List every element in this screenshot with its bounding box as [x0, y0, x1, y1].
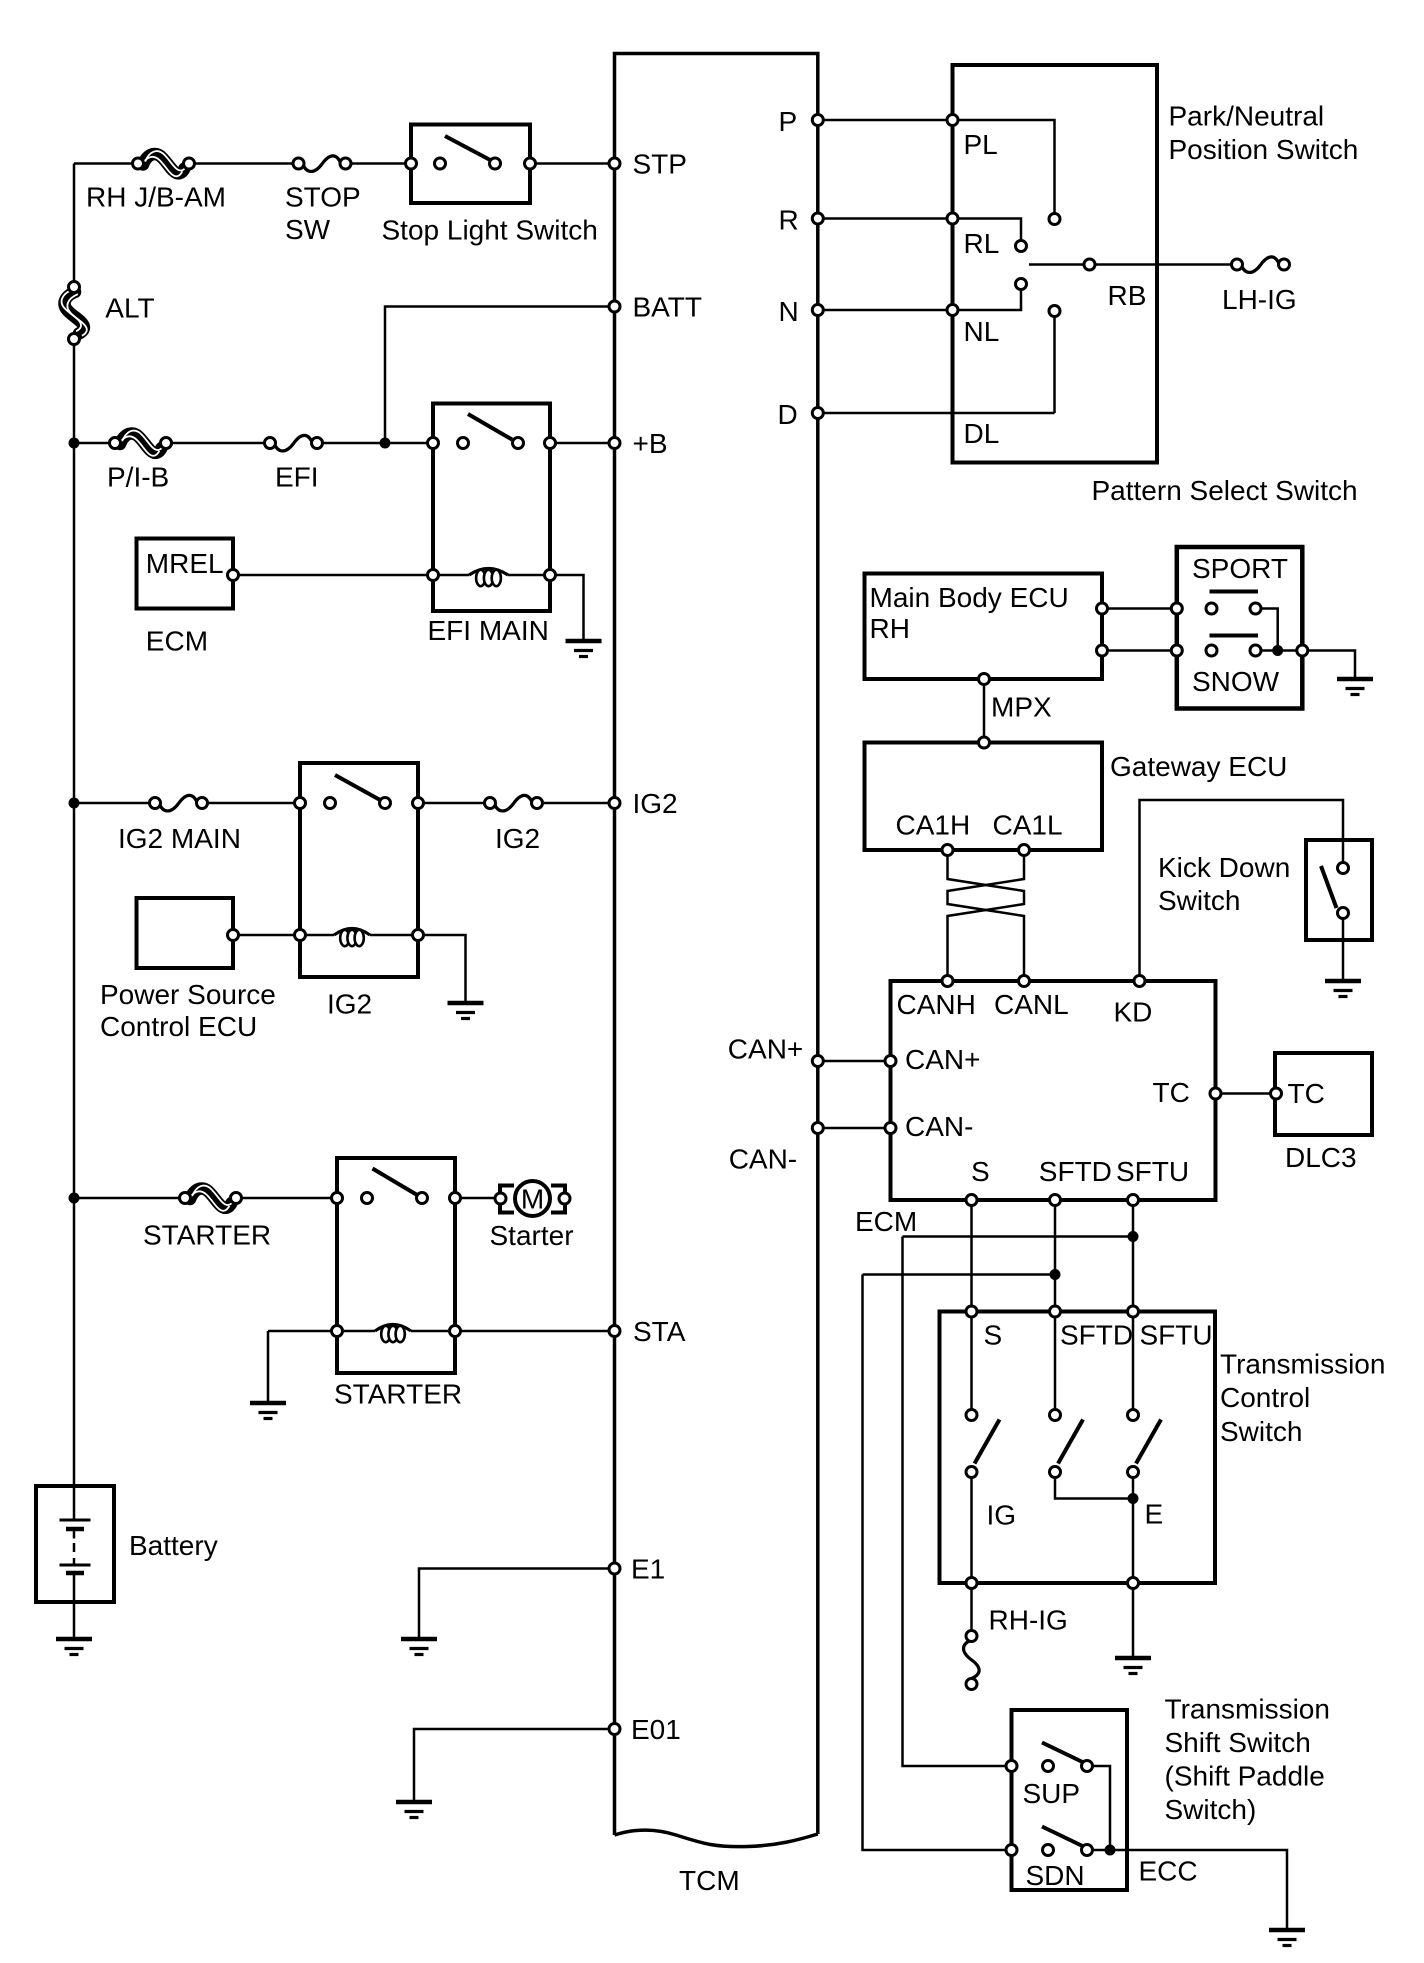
svg-text:Switch): Switch) [1165, 1794, 1257, 1825]
svg-text:STARTER: STARTER [334, 1379, 462, 1410]
svg-text:RH-IG: RH-IG [989, 1605, 1068, 1636]
svg-text:Transmission: Transmission [1220, 1349, 1385, 1380]
svg-text:CAN+: CAN+ [728, 1034, 803, 1065]
svg-text:Control ECU: Control ECU [100, 1011, 257, 1042]
svg-text:SNOW: SNOW [1192, 666, 1280, 697]
svg-text:CAN-: CAN- [729, 1144, 797, 1175]
svg-text:+B: +B [633, 428, 668, 459]
svg-text:E1: E1 [631, 1554, 665, 1585]
svg-text:SUP: SUP [1023, 1778, 1081, 1809]
svg-text:EFI MAIN: EFI MAIN [428, 615, 549, 646]
svg-text:ALT: ALT [105, 293, 154, 324]
svg-text:S: S [984, 1320, 1003, 1351]
svg-text:Stop Light Switch: Stop Light Switch [382, 215, 598, 246]
svg-text:CA1H: CA1H [896, 810, 971, 841]
svg-text:Starter: Starter [490, 1220, 574, 1251]
svg-text:Park/Neutral: Park/Neutral [1169, 101, 1325, 132]
svg-text:Kick Down: Kick Down [1158, 852, 1290, 883]
svg-text:Switch: Switch [1158, 885, 1240, 916]
svg-text:D: D [778, 399, 798, 430]
svg-text:S: S [971, 1156, 990, 1187]
svg-text:SDN: SDN [1026, 1860, 1085, 1891]
svg-text:Power Source: Power Source [100, 979, 276, 1010]
svg-text:RB: RB [1108, 280, 1147, 311]
svg-text:KD: KD [1114, 997, 1153, 1028]
svg-text:CA1L: CA1L [993, 810, 1063, 841]
svg-text:EFI: EFI [275, 462, 319, 493]
svg-text:CANH: CANH [897, 989, 976, 1020]
svg-text:R: R [779, 205, 799, 236]
svg-text:Switch: Switch [1220, 1416, 1302, 1447]
svg-text:IG2: IG2 [633, 788, 678, 819]
svg-text:SFTU: SFTU [1116, 1156, 1189, 1187]
svg-text:SFTD: SFTD [1039, 1156, 1112, 1187]
svg-text:STA: STA [633, 1316, 686, 1347]
svg-text:Control: Control [1220, 1382, 1310, 1413]
svg-text:LH-IG: LH-IG [1222, 284, 1297, 315]
svg-text:Gateway ECU: Gateway ECU [1110, 751, 1287, 782]
svg-text:SPORT: SPORT [1192, 553, 1288, 584]
svg-text:IG2: IG2 [495, 823, 540, 854]
svg-text:E01: E01 [631, 1714, 681, 1745]
svg-text:IG2: IG2 [327, 989, 372, 1020]
svg-text:DL: DL [964, 418, 1000, 449]
svg-text:STARTER: STARTER [143, 1220, 271, 1251]
svg-text:STOP: STOP [285, 182, 361, 213]
svg-text:MREL: MREL [146, 548, 224, 579]
svg-text:IG2 MAIN: IG2 MAIN [118, 823, 241, 854]
svg-text:CAN-: CAN- [905, 1111, 973, 1142]
svg-text:CAN+: CAN+ [905, 1044, 980, 1075]
svg-text:Transmission: Transmission [1165, 1694, 1330, 1725]
svg-text:DLC3: DLC3 [1285, 1142, 1357, 1173]
svg-text:TC: TC [1153, 1077, 1190, 1108]
svg-text:STP: STP [633, 149, 687, 180]
svg-text:N: N [779, 296, 799, 327]
svg-text:TC: TC [1288, 1078, 1325, 1109]
svg-text:(Shift Paddle: (Shift Paddle [1165, 1761, 1325, 1792]
svg-text:SW: SW [285, 214, 331, 245]
svg-text:P/I-B: P/I-B [107, 462, 169, 493]
svg-text:PL: PL [964, 129, 998, 160]
svg-text:SFTD: SFTD [1060, 1320, 1133, 1351]
svg-text:RL: RL [964, 228, 1000, 259]
svg-text:RH: RH [870, 613, 910, 644]
svg-text:RH J/B-AM: RH J/B-AM [86, 182, 226, 213]
svg-text:M: M [521, 1184, 544, 1215]
svg-text:MPX: MPX [991, 692, 1052, 723]
svg-text:Shift Switch: Shift Switch [1165, 1727, 1311, 1758]
svg-text:Battery: Battery [129, 1530, 218, 1561]
svg-text:Pattern Select Switch: Pattern Select Switch [1092, 475, 1358, 506]
svg-text:IG: IG [987, 1500, 1017, 1531]
svg-text:TCM: TCM [679, 1865, 740, 1896]
svg-text:P: P [779, 106, 798, 137]
svg-text:E: E [1145, 1499, 1164, 1530]
svg-text:SFTU: SFTU [1140, 1320, 1213, 1351]
svg-text:NL: NL [964, 316, 1000, 347]
svg-text:ECM: ECM [146, 626, 208, 657]
svg-text:CANL: CANL [994, 989, 1069, 1020]
svg-text:ECC: ECC [1139, 1856, 1198, 1887]
svg-text:ECM: ECM [855, 1206, 917, 1237]
svg-text:BATT: BATT [633, 292, 702, 323]
svg-text:Position Switch: Position Switch [1169, 134, 1359, 165]
svg-text:Main Body ECU: Main Body ECU [870, 582, 1069, 613]
